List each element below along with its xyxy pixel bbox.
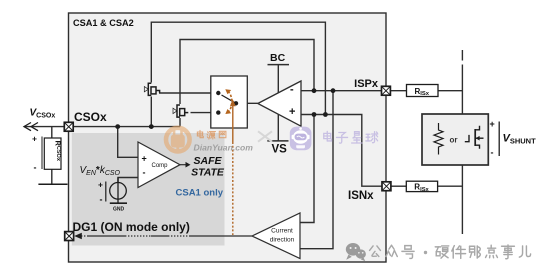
wire ISNx to RISx bottom <box>391 185 407 187</box>
node minus-linec junction <box>331 88 336 93</box>
wire RISx to shunt line top <box>438 90 462 92</box>
shunt resistor zigzag <box>434 123 443 155</box>
resistor RCSOx <box>44 138 61 169</box>
svg-text:+: + <box>32 134 37 144</box>
node minus-fb junction <box>312 88 317 93</box>
inner gray comparator block <box>72 133 225 246</box>
svg-text:CSA1 & CSA2: CSA1 & CSA2 <box>73 18 134 28</box>
wire plus node down to current-direction top input <box>300 115 314 223</box>
wire minus node down to current-direction bottom input <box>300 91 333 249</box>
wire M2 gate to switch <box>191 112 219 114</box>
wire top feedback 2 <box>180 40 314 105</box>
watermark dianyuan CJK text <box>197 130 203 137</box>
terminal ISNx <box>382 182 391 191</box>
watermark dianyuan logo <box>166 128 190 152</box>
current direction triangle <box>252 213 300 259</box>
node CSOx-comparator junction <box>115 124 120 129</box>
wire shunt vertical bottom <box>461 165 463 234</box>
transistor Q2 (chopper MOSFET 2) <box>173 105 188 117</box>
svg-text:-: - <box>34 163 37 173</box>
wire RCSOx top <box>51 127 53 138</box>
watermark ezxq CJK text <box>324 131 332 141</box>
svg-text:+: + <box>98 180 103 190</box>
wire M1 source to CSOx node <box>150 97 152 127</box>
node CSOx-M1 junction <box>149 124 154 129</box>
source polarity bar <box>105 182 107 202</box>
svg-text:+: + <box>289 106 295 118</box>
terminal DG1 <box>65 232 74 241</box>
wire switch pole to amp <box>236 102 258 104</box>
svg-text:Current: Current <box>271 228 293 235</box>
svg-text:DG1 (ON mode only): DG1 (ON mode only) <box>73 220 190 234</box>
wire M2 source down <box>179 118 181 127</box>
transistor Q1 (chopper MOSFET 1) <box>144 83 159 95</box>
svg-text:BC: BC <box>270 52 286 64</box>
svg-text:+: + <box>490 119 495 129</box>
wire shunt vertical top broken <box>461 50 463 61</box>
comparator output arrow <box>180 164 187 166</box>
VS terminal <box>267 140 288 142</box>
VCSOx arrow chevrons <box>24 123 38 131</box>
wire top feedback 1 <box>151 22 325 114</box>
safe-state control line (orange, dashed) <box>232 142 234 235</box>
svg-text:-: - <box>143 168 146 178</box>
svg-text:or: or <box>450 136 458 145</box>
watermark wechat CJK text <box>370 246 381 257</box>
svg-text:ISPx: ISPx <box>354 78 379 90</box>
resistor RISx bottom <box>406 181 437 191</box>
watermark robot icon <box>290 127 312 151</box>
voltage source V_EN*k_CSO <box>110 183 127 200</box>
watermark x mark <box>258 131 272 141</box>
transistor in shunt box <box>465 126 484 149</box>
ground <box>110 202 127 204</box>
wire M1 gate to switch <box>159 92 218 94</box>
svg-text:SAFE: SAFE <box>193 155 222 167</box>
terminal ISPx <box>382 86 391 95</box>
chopper switch box <box>211 76 248 128</box>
svg-text:VS: VS <box>272 144 288 156</box>
comparator U2 <box>138 142 180 188</box>
node plus-lineA junction <box>312 112 317 117</box>
wire amp to VS <box>277 114 279 140</box>
terminal CSOx <box>64 122 73 131</box>
svg-text:+: + <box>142 154 147 164</box>
wire RCSOx bottom <box>51 169 53 184</box>
wire comparator minus to source <box>118 178 138 183</box>
switch contact 1 <box>216 91 220 95</box>
resistor RISx top <box>407 85 439 97</box>
wire CSOx node down to comparator plus <box>118 127 138 158</box>
wire amp minus to ISPx <box>301 90 382 92</box>
svg-text:Comp: Comp <box>152 163 169 169</box>
svg-text:-: - <box>290 84 294 96</box>
switch pole <box>234 101 238 105</box>
wire ISPx to RISx <box>390 90 406 92</box>
svg-text:direction: direction <box>270 237 295 244</box>
node plus-fb junction <box>323 112 328 117</box>
wire RISx bottom to shunt line <box>438 185 463 187</box>
watermark wechat icon <box>346 243 366 261</box>
BC terminal <box>268 64 290 66</box>
svg-text:CSA1 only: CSA1 only <box>176 188 224 199</box>
switch contact 2 <box>216 110 220 114</box>
wire amp plus to ISNx <box>301 115 382 187</box>
node junction dots <box>115 88 335 129</box>
wire CSOx line <box>73 126 180 128</box>
RCSOx bottom bar <box>38 183 67 185</box>
op-amp U1 (CSA amplifier) <box>258 81 301 126</box>
outer block CSA1 & CSA2 <box>69 13 387 262</box>
svg-text:STATE: STATE <box>191 167 225 179</box>
svg-text:-: - <box>100 195 103 205</box>
svg-text:CSOx: CSOx <box>74 110 107 124</box>
wire BC to amp <box>277 65 279 93</box>
DG1 output wire with arrow <box>74 233 252 239</box>
wire VCSOx line <box>24 126 64 128</box>
svg-text:DianYuan.com: DianYuan.com <box>194 143 254 153</box>
switch blade <box>222 95 237 103</box>
svg-text:GND: GND <box>113 207 125 213</box>
svg-text:ISNx: ISNx <box>348 190 374 202</box>
shunt box <box>422 114 488 165</box>
RCSOx polarity bar <box>41 137 43 170</box>
chopper rotation arc (orange) <box>228 92 232 113</box>
svg-text:-: - <box>491 148 494 158</box>
